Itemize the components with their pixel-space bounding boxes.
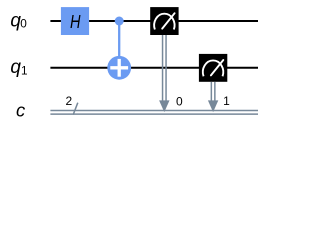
CNOT target on q1 bbox=[107, 56, 131, 80]
measure M1 double line to creg bbox=[211, 82, 215, 102]
wire q1 bbox=[50, 67, 258, 69]
svg-text:H: H bbox=[70, 12, 81, 32]
gate H (U1) bbox=[61, 7, 89, 35]
svg-text:c: c bbox=[16, 100, 25, 121]
measure M1 arrowhead bbox=[208, 100, 218, 112]
measure M1 gate on q1 bbox=[199, 54, 227, 82]
classical bus width label 2 bbox=[65, 94, 72, 108]
CNOT control-target vertical wire bbox=[118, 21, 120, 68]
measure M1 classical bit label 1 bbox=[223, 94, 230, 108]
measure M0 double line to creg bbox=[163, 35, 167, 102]
classical wire c (double line) bbox=[50, 111, 258, 115]
svg-text:0: 0 bbox=[176, 95, 183, 109]
label c bbox=[16, 100, 25, 121]
svg-text:q: q bbox=[10, 57, 21, 78]
label q1 bbox=[10, 57, 27, 78]
label q0 bbox=[10, 10, 27, 31]
svg-text:2: 2 bbox=[65, 94, 72, 108]
wire q0 bbox=[50, 20, 258, 22]
svg-text:0: 0 bbox=[20, 17, 27, 31]
classical bus width slash bbox=[73, 103, 78, 115]
svg-text:1: 1 bbox=[21, 63, 28, 77]
measure M0 arrowhead bbox=[159, 100, 169, 112]
measure M0 classical bit label 0 bbox=[176, 95, 183, 109]
CNOT control dot on q0 bbox=[115, 17, 124, 26]
measure M0 gate on q0 bbox=[150, 7, 178, 35]
svg-text:1: 1 bbox=[223, 94, 230, 108]
